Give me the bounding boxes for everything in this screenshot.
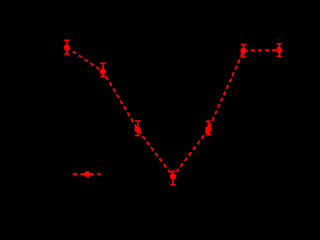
data point 5 marker: [205, 126, 211, 132]
data point 7 marker: [276, 47, 282, 53]
error bar point 5: [206, 121, 212, 135]
legend sample line center bar: [80, 173, 94, 175]
error bar point 1: [64, 40, 70, 54]
error bar point 7: [277, 44, 283, 57]
error bar point 6: [241, 44, 247, 57]
data point 3 marker: [135, 126, 141, 132]
error bar point 3: [135, 121, 141, 136]
data point 2 marker: [100, 68, 106, 74]
error bar point 4 (bottom of V): [170, 171, 176, 185]
data point 4 marker: [170, 173, 176, 179]
legend sample line dash 2: [97, 173, 101, 175]
legend sample marker: [84, 171, 90, 177]
data point 6 marker: [240, 48, 246, 54]
error bar point 2: [100, 63, 106, 76]
dashed data line (red, V-shaped): [67, 48, 279, 177]
legend sample line dash 1: [73, 173, 77, 175]
data point 1 marker: [64, 44, 70, 50]
